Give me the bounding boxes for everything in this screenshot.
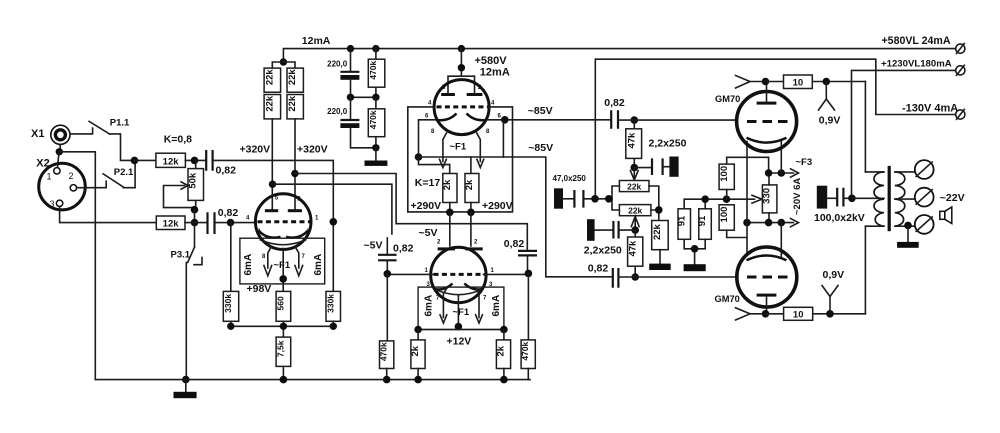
- power tube GM70 (bottom): [737, 247, 797, 314]
- node 10 out top: [823, 78, 831, 86]
- wire top anode to transformer: [864, 82, 866, 172]
- svg-text:-130V 4mA: -130V 4mA: [902, 103, 958, 115]
- wire 12k to node: [185, 159, 206, 161]
- svg-text:470k: 470k: [379, 342, 389, 361]
- svg-text:~F1: ~F1: [274, 260, 291, 271]
- node plate B: [291, 170, 298, 177]
- svg-text:3: 3: [50, 199, 55, 209]
- output terminal 2: [915, 188, 934, 207]
- resistor 22k (chain B2): [287, 95, 303, 119]
- ground symbol 91s: [684, 264, 706, 271]
- svg-text:47k: 47k: [627, 132, 638, 149]
- wire tube3 plates up to +290V nodes: [450, 212, 471, 246]
- wire cap to tube1 right grid: [214, 160, 334, 221]
- ground symbol 22k: [649, 264, 671, 270]
- resistor 47k (bottom grid): [627, 230, 643, 277]
- resistor 470k (tube3 right grid leak): [520, 273, 535, 379]
- node after 12k lower: [191, 219, 199, 227]
- svg-text:0,82: 0,82: [216, 165, 237, 177]
- wire filament right top: [780, 142, 782, 174]
- svg-text:GM70: GM70: [715, 294, 740, 304]
- wire ground rail bottom: [95, 379, 530, 381]
- test fork bottom plate: [736, 308, 766, 320]
- potentiometer 50k: [164, 160, 204, 209]
- svg-text:6mA: 6mA: [424, 295, 435, 317]
- node center tap: [848, 195, 856, 203]
- svg-text:~F1: ~F1: [453, 307, 470, 318]
- node pot bottom: [191, 206, 199, 214]
- svg-text:~22V: ~22V: [940, 192, 965, 204]
- connector X2 (XLR): [39, 163, 86, 210]
- wire cathode to 560: [282, 249, 284, 292]
- svg-text:22k: 22k: [287, 95, 298, 112]
- capacitor 220,0 (upper): [340, 49, 359, 98]
- transformer T1 secondary: [895, 172, 915, 226]
- node tube1 left grid: [227, 219, 235, 227]
- wire cathode right down: [502, 120, 504, 157]
- node plate-load top: [280, 58, 287, 65]
- resistor 12k (lower input): [156, 216, 185, 230]
- node rail cap 220: [347, 45, 354, 52]
- svg-text:330k: 330k: [223, 294, 233, 313]
- node tube2 plate supply: [458, 45, 465, 52]
- svg-text:P3.1: P3.1: [171, 250, 191, 261]
- node X1/X2 ground junction: [56, 148, 63, 155]
- svg-text:2k: 2k: [496, 345, 507, 356]
- resistor 91 (left): [676, 199, 754, 239]
- wire to GM70 bottom grid: [619, 276, 737, 278]
- node bias top: [631, 164, 639, 172]
- svg-text:22k: 22k: [264, 69, 275, 86]
- svg-text:~5V: ~5V: [364, 240, 383, 252]
- svg-text:~F1: ~F1: [450, 142, 467, 153]
- capacitor 0,82 (coupling to GM70 bottom grid): [613, 268, 619, 288]
- resistor 2k (left): [442, 165, 457, 213]
- node plate A: [269, 181, 276, 188]
- wire mid node: [351, 96, 376, 98]
- svg-text:12mA: 12mA: [480, 67, 510, 79]
- wire to GM70 top grid: [619, 119, 737, 121]
- svg-text:470k: 470k: [520, 341, 530, 360]
- wire 22k chain A to tube1 left plate: [271, 119, 273, 209]
- capacitor 2,2x250 (top): [634, 157, 678, 177]
- svg-text:22k: 22k: [627, 182, 641, 192]
- wire cathode right exit: [487, 119, 611, 121]
- wire tube2 grid loop (K=17 box): [408, 107, 513, 212]
- capacitor 220,0 (lower): [340, 97, 376, 148]
- wire X1 shield to ground node: [59, 145, 61, 152]
- svg-text:+580V: +580V: [475, 55, 508, 67]
- svg-text:330: 330: [762, 188, 773, 204]
- node filter bottom: [372, 144, 379, 151]
- wire cathode rail (~85V line to lower GM70): [419, 157, 613, 277]
- node tube3 left grid: [384, 270, 392, 278]
- wire cap to tube1 left grid: [216, 222, 257, 224]
- speaker icon: [940, 207, 952, 224]
- svg-text:P1.1: P1.1: [110, 118, 130, 129]
- resistor 22k (chain B1): [287, 68, 303, 92]
- wire filament bus left: [746, 142, 748, 255]
- wire X1 to switch P1.1: [70, 128, 92, 134]
- svg-text:2,2x250: 2,2x250: [584, 245, 622, 257]
- power tube GM70 (top): [737, 82, 797, 152]
- wire filament right bottom: [780, 223, 782, 258]
- resistor 12k (upper input): [156, 153, 186, 167]
- pin digits tube3: [425, 240, 495, 302]
- svg-text:~20V 6A: ~20V 6A: [792, 178, 803, 215]
- wire node to cap: [185, 222, 207, 224]
- resistor 2k (right): [464, 157, 479, 212]
- potentiometer 330: [762, 173, 777, 223]
- resistor 10 (top anode): [766, 75, 866, 89]
- svg-text:~85V: ~85V: [528, 142, 553, 154]
- svg-text:+290V: +290V: [482, 200, 513, 212]
- resistor 47k (top grid): [626, 120, 642, 168]
- potentiometer 22k (bottom): [619, 205, 651, 216]
- svg-text:10: 10: [793, 310, 804, 321]
- node rail 470k: [372, 45, 379, 52]
- node GM70 bottom grid: [631, 273, 639, 281]
- svg-text:~5V: ~5V: [419, 227, 438, 239]
- wire center tap to primary: [852, 197, 884, 199]
- output terminal 1: [915, 160, 934, 179]
- svg-text:+580VL 24mA: +580VL 24mA: [882, 35, 951, 47]
- svg-text:7,5k: 7,5k: [275, 340, 285, 357]
- svg-text:470k: 470k: [368, 110, 378, 129]
- svg-text:10: 10: [793, 78, 804, 89]
- svg-text:+290V: +290V: [411, 200, 442, 212]
- svg-text:22k: 22k: [652, 223, 663, 240]
- node tube1 right grid: [330, 218, 338, 226]
- node bias bottom: [631, 226, 639, 234]
- resistor 100 (lower): [719, 205, 747, 238]
- resistor 2k (tube3 cathode right): [496, 330, 511, 380]
- node plate top: [762, 78, 770, 86]
- wire tube2 plates to rail: [448, 49, 475, 94]
- svg-text:0,9V: 0,9V: [823, 269, 845, 281]
- node cathode rail left: [415, 153, 423, 161]
- svg-text:+98V: +98V: [247, 283, 272, 295]
- test fork 0,9V bottom: [822, 286, 838, 314]
- switch P2.1: [103, 160, 135, 187]
- svg-text:6mA: 6mA: [313, 254, 324, 276]
- triode U3 (driver): [431, 247, 486, 302]
- wire 22k chain B to tube1 right plate: [294, 119, 296, 209]
- test fork 0,9V top: [819, 82, 835, 111]
- pin digits tube1: [246, 196, 319, 261]
- wire 22k chain tops: [272, 62, 295, 68]
- svg-text:47k: 47k: [627, 240, 638, 257]
- wire node to XLR pin1: [58, 152, 60, 168]
- svg-text:22k: 22k: [264, 95, 275, 112]
- capacitor 0,82 (coupling to GM70 top grid): [611, 110, 618, 129]
- resistor 560 (cathode): [275, 291, 290, 321]
- wire -130V down to bias node: [594, 59, 596, 199]
- resistor 22k (chain A2): [264, 95, 281, 119]
- svg-text:2,2x250: 2,2x250: [649, 138, 687, 150]
- wire common rail under stage1: [231, 321, 333, 337]
- wire node to 12k: [135, 159, 156, 161]
- wire plate A coupling: [273, 184, 392, 234]
- svg-text:220,0: 220,0: [327, 60, 348, 69]
- wiper arrow pot top: [630, 168, 638, 180]
- capacitor 2,2x250 (bottom): [587, 219, 635, 241]
- node cathode tube3: [455, 323, 463, 331]
- svg-text:K=0,8: K=0,8: [164, 133, 192, 145]
- resistor 470k (lower bleeder): [368, 97, 385, 148]
- svg-text:220,0: 220,0: [327, 107, 348, 116]
- filament box tube1: [240, 238, 325, 284]
- capacitor 0,82 (coupling to tube3 right grid): [518, 251, 537, 272]
- node +290V B: [467, 209, 475, 217]
- wire filament bottom line: [747, 222, 794, 224]
- supply terminal +580VL: [956, 44, 965, 54]
- resistor 470k (tube3 left grid leak): [379, 274, 394, 380]
- wire XLR pin3 to 12k lower: [60, 206, 157, 222]
- node cathode right: [501, 116, 509, 124]
- wire ground return (left vertical): [59, 152, 95, 380]
- node GM70 top grid: [631, 116, 639, 124]
- filament arrows tube3 ~F1: [440, 288, 482, 323]
- node after 12k upper: [191, 157, 199, 165]
- wire cathode left to 2k rail: [419, 120, 450, 165]
- svg-text:1: 1: [47, 172, 52, 182]
- switch P3.1: [186, 226, 202, 380]
- wire filament top line ~F3: [769, 172, 794, 174]
- filament arrows tube2 ~F1: [440, 133, 484, 168]
- wire 91 bottoms to ground: [684, 239, 705, 264]
- svg-text:0,82: 0,82: [393, 243, 414, 255]
- wire tube3 right grid: [484, 273, 529, 275]
- wiper arrow pot bottom: [631, 216, 639, 230]
- wire -130V feed: [596, 59, 955, 114]
- node secondary ground tap: [904, 222, 912, 230]
- svg-text:12mA: 12mA: [302, 35, 331, 47]
- filament box tube3: [418, 287, 504, 329]
- resistor 2k (tube3 cathode left): [410, 330, 425, 380]
- svg-text:GM70: GM70: [715, 94, 740, 104]
- capacitor 0,82 (upper input): [206, 150, 212, 171]
- svg-text:100,0x2kV: 100,0x2kV: [814, 212, 865, 224]
- svg-text:6mA: 6mA: [243, 254, 254, 276]
- wire plate B coupling: [295, 174, 527, 251]
- wire +12V rail: [418, 329, 504, 331]
- wire +580V top rail: [283, 49, 955, 62]
- node plate bottom: [762, 310, 770, 318]
- capacitor 0,82 (coupling to tube3 left grid): [378, 238, 397, 274]
- transformer T1 primary: [865, 172, 884, 226]
- svg-text:22k: 22k: [628, 206, 642, 216]
- svg-text:2k: 2k: [464, 179, 475, 190]
- supply terminal -130V: [956, 109, 965, 119]
- resistor 7,5k: [275, 337, 290, 380]
- output terminal 3: [915, 215, 934, 234]
- svg-text:0,82: 0,82: [588, 263, 609, 275]
- wire tube3 cathode to +12V rail: [457, 295, 459, 330]
- node pots right: [655, 206, 663, 214]
- wire pots left join: [612, 186, 619, 210]
- svg-text:91: 91: [676, 215, 687, 226]
- connector X1 (RCA): [51, 125, 70, 144]
- svg-text:330k: 330k: [325, 294, 335, 313]
- svg-text:+1230VL180mA: +1230VL180mA: [881, 58, 952, 69]
- capacitor 100,0x2kV: [817, 186, 852, 209]
- wire pot node to lower node: [194, 210, 196, 223]
- potentiometer 22k (top): [619, 181, 649, 192]
- node +290V A: [446, 209, 454, 217]
- svg-text:100: 100: [719, 166, 730, 182]
- svg-text:+12V: +12V: [447, 336, 472, 348]
- svg-text:12k: 12k: [163, 219, 180, 230]
- wire pots right join: [649, 186, 659, 221]
- wire bottom anode to transformer: [864, 226, 866, 314]
- resistor 330k (left grid leak): [223, 223, 239, 322]
- supply terminal +1230VL: [956, 65, 965, 75]
- triode U1 (input stage): [255, 194, 311, 250]
- svg-text:X1: X1: [31, 128, 44, 140]
- svg-text:~85V: ~85V: [528, 105, 553, 117]
- svg-text:K=17: K=17: [415, 177, 441, 189]
- resistor 10 (bottom anode): [766, 307, 866, 320]
- svg-text:22k: 22k: [287, 69, 298, 86]
- svg-text:+320V: +320V: [240, 144, 271, 156]
- svg-text:470k: 470k: [368, 60, 378, 79]
- node ground rail main: [182, 376, 190, 384]
- wire tube3 left grid: [387, 273, 434, 275]
- resistor 470k (upper bleeder): [368, 49, 385, 98]
- resistor 100 (upper): [719, 157, 769, 199]
- svg-text:+320V: +320V: [297, 144, 328, 156]
- wire +1230V rail: [852, 70, 956, 198]
- node 7,5k ground: [280, 376, 288, 384]
- svg-text:91: 91: [697, 215, 708, 226]
- svg-text:2k: 2k: [410, 345, 421, 356]
- svg-text:50k: 50k: [188, 172, 199, 189]
- filament arrows tube1 (~F1 6mA): [264, 247, 303, 276]
- svg-text:0,82: 0,82: [504, 238, 525, 250]
- node switches junction: [131, 157, 139, 165]
- svg-text:560: 560: [275, 296, 285, 310]
- svg-text:0,9V: 0,9V: [819, 115, 841, 127]
- pin digits tube2: [425, 85, 502, 135]
- test fork top plate: [736, 76, 766, 89]
- svg-text:12k: 12k: [163, 156, 180, 167]
- svg-text:X2: X2: [36, 158, 49, 170]
- transformer core: [888, 166, 891, 231]
- ground symbol secondary: [897, 226, 919, 248]
- node 10 out bottom: [826, 310, 834, 318]
- svg-text:47,0x250: 47,0x250: [553, 174, 587, 183]
- node cathode: [279, 275, 287, 283]
- capacitor 0,82 (lower input): [208, 212, 215, 234]
- ground symbol main: [174, 380, 197, 399]
- svg-text:100: 100: [719, 207, 730, 223]
- svg-text:2: 2: [69, 171, 74, 181]
- svg-text:P2.1: P2.1: [114, 167, 134, 178]
- ground symbol filter: [365, 148, 388, 166]
- svg-text:0,82: 0,82: [218, 207, 239, 219]
- triode U2 (driver cathode follower): [434, 80, 489, 135]
- capacitor 47,0x250: [554, 188, 583, 208]
- svg-text:0,82: 0,82: [604, 97, 625, 109]
- switch P1.1: [89, 121, 134, 160]
- resistor 91 (right): [697, 199, 711, 239]
- resistor 22k (bias divider fixed): [652, 221, 669, 264]
- resistor 330k (right grid leak): [325, 222, 340, 321]
- wiper arrow 330: [752, 195, 762, 203]
- svg-text:2k: 2k: [442, 179, 453, 190]
- svg-text:6mA: 6mA: [491, 295, 502, 317]
- svg-text:~F3: ~F3: [796, 157, 813, 168]
- resistor 22k (chain A1): [264, 68, 281, 92]
- wire XLR pin2 to switch P2.1: [77, 181, 107, 188]
- wire bias node line: [585, 198, 613, 200]
- node tube3 right grid: [525, 270, 533, 278]
